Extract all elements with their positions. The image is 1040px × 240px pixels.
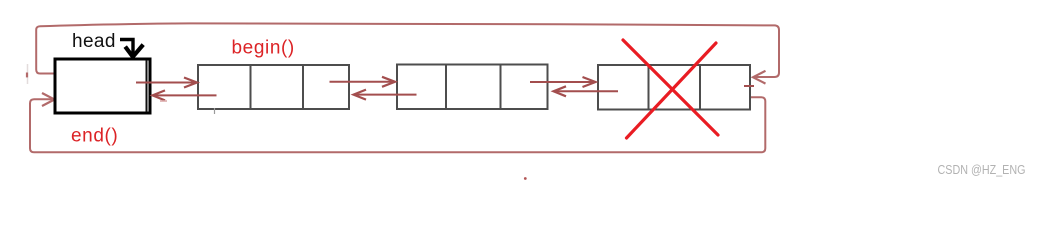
- svg-text:head: head: [72, 31, 116, 52]
- svg-text:begin(): begin(): [232, 38, 295, 59]
- svg-text:CSDN @HZ_ENG: CSDN @HZ_ENG: [938, 163, 1026, 177]
- svg-text:end(): end(): [71, 126, 118, 147]
